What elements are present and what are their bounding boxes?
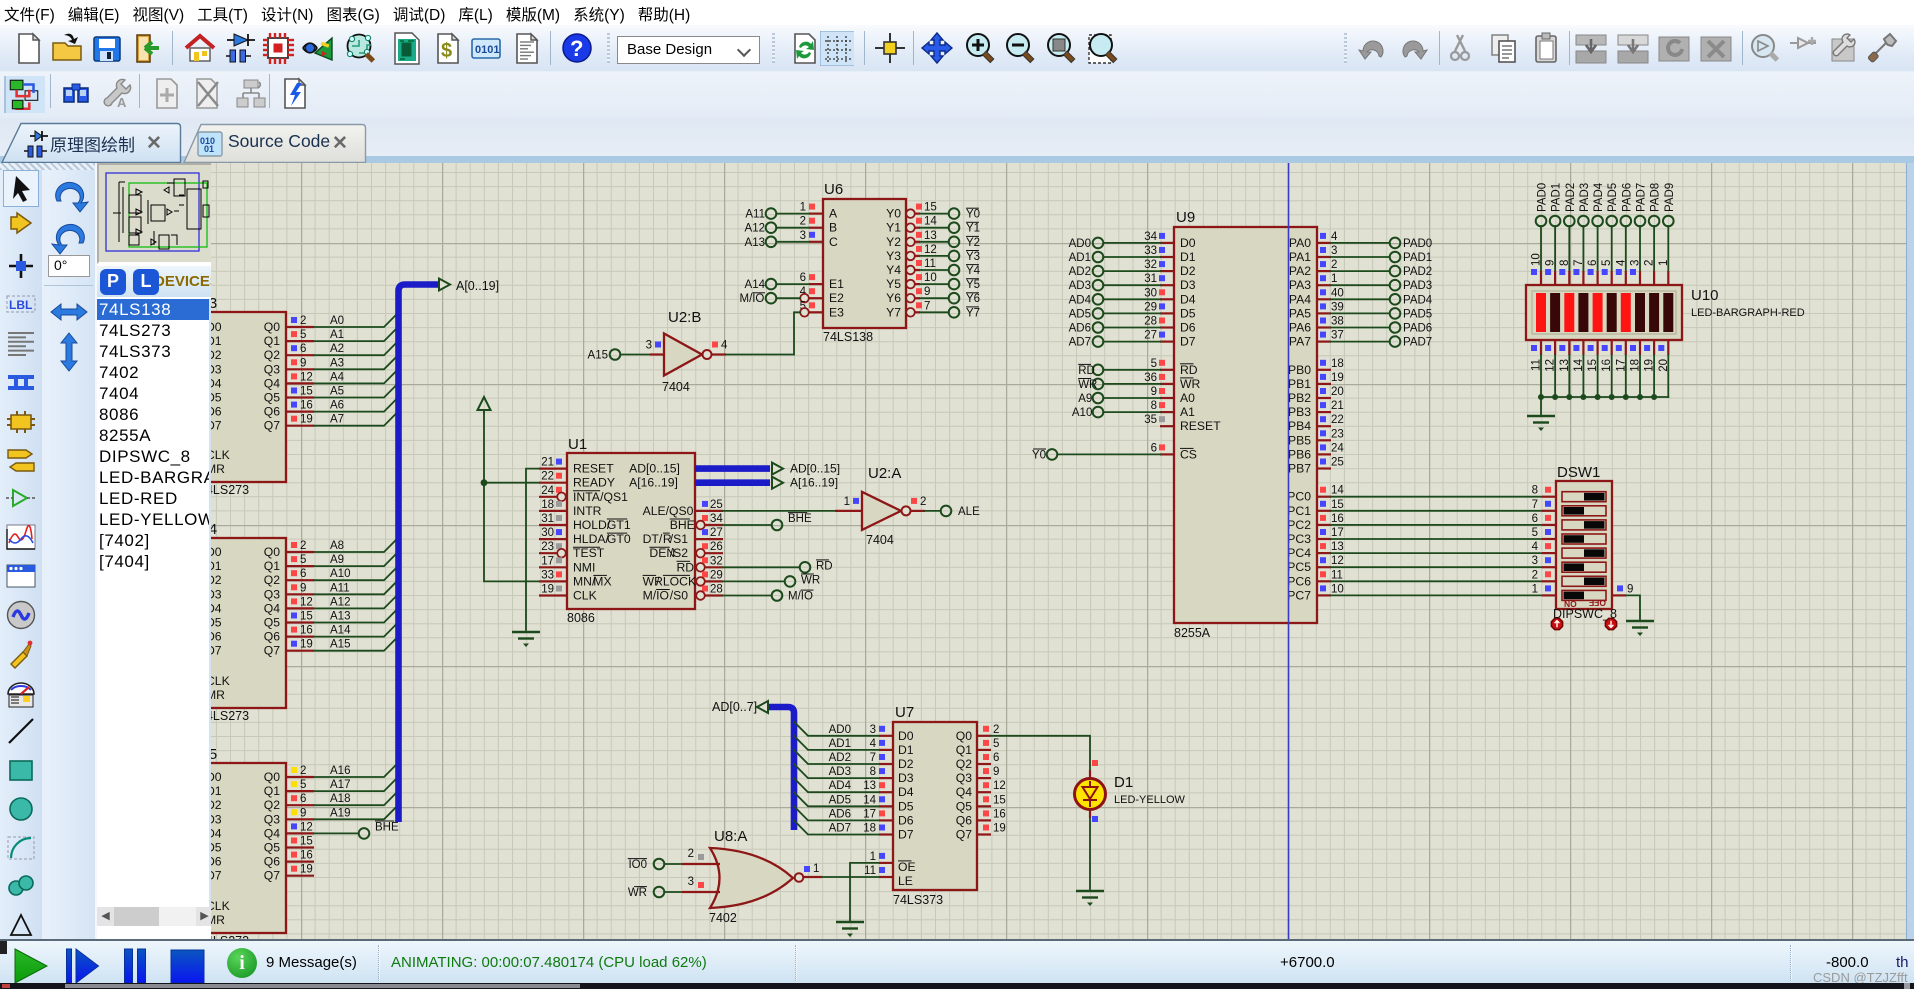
wire U2:B out to U6 E3 — [711, 353, 794, 355]
svg-text:D1: D1 — [1114, 774, 1133, 791]
svg-text:6: 6 — [800, 272, 806, 284]
svg-text:WR: WR — [643, 574, 664, 588]
U8:A pin 3 terminal WR — [628, 876, 720, 899]
svg-text:Y0: Y0 — [886, 207, 901, 221]
svg-text:19: 19 — [300, 864, 313, 876]
svg-text:Q3: Q3 — [956, 771, 972, 785]
svg-text:A12: A12 — [745, 223, 765, 235]
U10 top pin 7 terminal PAD3 — [1573, 183, 1591, 285]
svg-text:3: 3 — [800, 230, 806, 242]
svg-text:9: 9 — [993, 766, 999, 778]
svg-text:A: A — [829, 207, 838, 221]
svg-text:U2:B: U2:B — [668, 309, 701, 326]
U1 pin 29 — [695, 569, 723, 585]
svg-text:ALE: ALE — [958, 506, 980, 518]
svg-text:U9: U9 — [1176, 209, 1195, 226]
svg-text:15: 15 — [993, 794, 1006, 806]
svg-text:A17: A17 — [330, 779, 350, 791]
svg-text:D2: D2 — [211, 798, 222, 812]
U5 pin 2 wire A16 — [286, 763, 398, 777]
svg-text:B: B — [829, 221, 837, 235]
svg-text:31: 31 — [541, 513, 554, 525]
svg-text:9: 9 — [1151, 386, 1157, 398]
svg-text:74LS373: 74LS373 — [893, 893, 943, 907]
svg-text:1: 1 — [813, 863, 819, 875]
svg-text:MX: MX — [593, 574, 611, 588]
U3 pin 15 wire A5 — [286, 383, 398, 397]
svg-text:PAD1: PAD1 — [1403, 252, 1432, 264]
svg-text:D1: D1 — [211, 784, 222, 798]
svg-text:A15: A15 — [330, 639, 350, 651]
U3 pin 9 wire A3 — [286, 355, 398, 369]
svg-text:21: 21 — [1331, 400, 1344, 412]
svg-text:LBL: LBL — [9, 298, 32, 312]
svg-text:3: 3 — [1630, 260, 1642, 266]
svg-text:A[0..19]: A[0..19] — [456, 279, 499, 293]
U1 pin 31 (HOLD/) — [539, 513, 567, 525]
svg-text:PB3: PB3 — [1288, 405, 1311, 419]
svg-text:34: 34 — [1144, 231, 1157, 243]
svg-text:WR: WR — [1078, 379, 1097, 391]
IC U7 74LS373 — [893, 704, 977, 907]
svg-text:7: 7 — [1573, 260, 1585, 266]
svg-text:PA6: PA6 — [1289, 321, 1311, 335]
svg-text:9: 9 — [924, 286, 930, 298]
svg-text:RD: RD — [1078, 365, 1095, 377]
svg-text:OE: OE — [898, 860, 916, 874]
svg-text:M/: M/ — [788, 591, 802, 603]
svg-text:RD: RD — [677, 560, 695, 574]
svg-text:MR: MR — [211, 462, 225, 476]
svg-text:74LS273: 74LS273 — [211, 709, 249, 723]
svg-text:14: 14 — [863, 794, 876, 806]
svg-text:25: 25 — [710, 499, 723, 511]
IC U6 74LS138 — [823, 181, 906, 344]
U1 pin 19 (CLK) — [539, 584, 567, 596]
svg-text:15: 15 — [1331, 499, 1344, 511]
svg-text:D5: D5 — [1180, 306, 1196, 320]
U6 pin 10 wire Y5 — [906, 272, 980, 291]
svg-text:A12: A12 — [330, 596, 350, 608]
svg-text:OFF: OFF — [1589, 598, 1606, 608]
U7 pin 5 Q1 — [977, 738, 999, 750]
U9 pin 27 wire AD7 — [1069, 330, 1174, 349]
svg-text:1: 1 — [800, 202, 806, 214]
U6 pin 7 wire Y7 — [906, 300, 980, 319]
svg-text:D4: D4 — [211, 826, 222, 840]
svg-text:A13: A13 — [330, 611, 350, 623]
svg-text:RESET: RESET — [573, 462, 614, 476]
svg-text:Q6: Q6 — [264, 630, 280, 644]
svg-text:A8: A8 — [330, 540, 344, 552]
svg-text:WR: WR — [1180, 377, 1201, 391]
power terminal arrow — [478, 397, 491, 414]
svg-text:Y7: Y7 — [886, 305, 901, 319]
U8:A pin 1 output wire to U7 LE/OE and ground — [803, 863, 879, 921]
svg-text:34: 34 — [710, 513, 723, 525]
U9 pin 37 wire PAD7 — [1317, 330, 1432, 349]
svg-text:Q1: Q1 — [264, 784, 280, 798]
svg-text:1: 1 — [1532, 583, 1538, 595]
svg-text:U3: U3 — [211, 295, 217, 312]
svg-text:/QS1: /QS1 — [600, 490, 628, 504]
wire ALE from U1 to U2:A — [723, 510, 862, 512]
svg-text:Q5: Q5 — [264, 616, 280, 630]
svg-text:28: 28 — [1144, 316, 1157, 328]
U9 pin 13 wire PC4 to DSW1 pin 4 — [1317, 541, 1556, 553]
svg-text:D3: D3 — [898, 771, 914, 785]
U4 pin 2 wire A8 — [286, 538, 398, 552]
NOR gate U8:A 7402 — [709, 828, 803, 925]
U9 pin 32 wire AD2 — [1069, 259, 1174, 278]
U4 pin 15 wire A13 — [286, 608, 398, 622]
svg-text:32: 32 — [710, 555, 723, 567]
U3 pin 19 wire A7 — [286, 412, 398, 426]
U7 pin 8 wire AD3 — [794, 764, 893, 778]
U9 pin 5 wire — [1078, 358, 1174, 377]
svg-text:LED-BARGRAPH-RED: LED-BARGRAPH-RED — [1691, 307, 1805, 319]
U5 pin 6 wire A18 — [286, 791, 398, 805]
U10 bottom pin 18 wire — [1630, 340, 1644, 400]
U1 pin 28 — [695, 584, 723, 600]
svg-text:19: 19 — [541, 584, 554, 596]
U1 pin 26 — [695, 541, 723, 557]
U10 top pin 5 terminal PAD5 — [1601, 183, 1619, 285]
svg-text:D0: D0 — [211, 320, 222, 334]
svg-text:1: 1 — [844, 496, 850, 508]
sheet border line — [1288, 163, 1290, 939]
svg-text:AD4: AD4 — [829, 780, 852, 792]
U10 top pin 9 terminal PAD1 — [1545, 183, 1563, 285]
svg-text:6: 6 — [300, 343, 306, 355]
svg-text:33: 33 — [541, 569, 554, 581]
svg-text:Y5: Y5 — [966, 279, 980, 291]
U4 pin 12 wire A12 — [286, 594, 398, 608]
svg-text:D6: D6 — [211, 855, 222, 869]
svg-text:PAD7: PAD7 — [1636, 183, 1648, 212]
svg-text:74LS138: 74LS138 — [823, 330, 873, 344]
svg-text:A3: A3 — [330, 357, 344, 369]
svg-text:Q6: Q6 — [956, 813, 972, 827]
U7 pin 14 wire AD5 — [794, 792, 893, 806]
U3 pin 12 wire A4 — [286, 369, 398, 383]
U3 pin 16 wire A6 — [286, 398, 398, 412]
U9 pin 33 wire AD1 — [1069, 245, 1174, 264]
svg-text:PC4: PC4 — [1287, 546, 1311, 560]
svg-text:13: 13 — [863, 780, 876, 792]
svg-text:A11: A11 — [745, 209, 765, 221]
svg-text:14: 14 — [1331, 485, 1344, 497]
U9 pin 19 PB1 stub — [1317, 372, 1344, 384]
svg-text:D4: D4 — [211, 601, 222, 615]
svg-text:PA5: PA5 — [1289, 306, 1311, 320]
svg-text:12: 12 — [300, 371, 313, 383]
U8:A pin 2 terminal IO0 — [628, 848, 720, 871]
svg-text:LED-YELLOW: LED-YELLOW — [1114, 794, 1186, 806]
ground below D1 — [1076, 891, 1104, 906]
svg-text:Q2: Q2 — [264, 573, 280, 587]
svg-text:PAD9: PAD9 — [1664, 183, 1676, 212]
U9 pin 11 wire PC6 to DSW1 pin 2 — [1317, 569, 1556, 581]
U6 pin 13 wire Y2 — [906, 230, 980, 249]
svg-text:2: 2 — [688, 848, 694, 860]
svg-text:10: 10 — [1331, 583, 1344, 595]
svg-text:22: 22 — [1331, 414, 1344, 426]
U7 pin 12 Q4 — [977, 780, 1006, 792]
U6 pin 12 wire Y3 — [906, 244, 980, 263]
U10 top pin 3 terminal PAD7 — [1630, 183, 1648, 285]
svg-text:15: 15 — [924, 202, 937, 214]
IC U4 74LS273 — [180, 521, 286, 723]
IC U5 74LS273 — [180, 746, 286, 948]
svg-text:U1: U1 — [568, 436, 587, 453]
wire U1 READY — [481, 479, 539, 486]
svg-text:D5: D5 — [211, 841, 222, 855]
svg-text:A5: A5 — [330, 386, 344, 398]
U5 pin 15 stub — [286, 836, 314, 848]
wire D1 to ground — [1089, 818, 1091, 889]
svg-text:Q0: Q0 — [264, 770, 280, 784]
svg-text:TEST: TEST — [573, 546, 605, 560]
svg-text:A11: A11 — [330, 582, 350, 594]
svg-text:Y2: Y2 — [966, 237, 980, 249]
svg-text:D4: D4 — [898, 785, 914, 799]
svg-text:MR: MR — [211, 688, 225, 702]
svg-text:PC2: PC2 — [1287, 518, 1311, 532]
svg-text:GT1: GT1 — [607, 518, 631, 532]
svg-text:DT/: DT/ — [643, 532, 663, 546]
svg-text:1: 1 — [870, 851, 876, 863]
svg-text:6: 6 — [300, 568, 306, 580]
svg-text:MR: MR — [211, 913, 225, 927]
svg-text:2: 2 — [800, 216, 806, 228]
svg-text:7: 7 — [924, 300, 930, 312]
svg-text:1: 1 — [1658, 260, 1670, 266]
svg-text:U8:A: U8:A — [714, 828, 747, 845]
svg-text:9: 9 — [300, 582, 306, 594]
svg-text:D4: D4 — [1180, 292, 1196, 306]
svg-text:Q6: Q6 — [264, 855, 280, 869]
ground below U1 — [512, 632, 540, 647]
U7 pin 3 wire AD0 — [794, 722, 893, 736]
U9 pin 28 wire AD6 — [1069, 316, 1174, 335]
svg-text:Y7: Y7 — [966, 307, 980, 319]
svg-text:PB6: PB6 — [1288, 447, 1311, 461]
U6 pin 15 wire Y0 — [906, 202, 980, 221]
svg-text:D5: D5 — [898, 799, 914, 813]
svg-text:26: 26 — [710, 541, 723, 553]
svg-text:2: 2 — [920, 496, 926, 508]
U7 pin 6 Q2 — [977, 752, 999, 764]
svg-text:AD6: AD6 — [1069, 323, 1091, 335]
svg-text:D3: D3 — [211, 587, 222, 601]
ground below U8:A — [836, 922, 864, 937]
svg-text:INTA: INTA — [573, 490, 601, 504]
U7 pin 18 wire AD7 — [794, 820, 893, 834]
svg-text:A15: A15 — [588, 350, 608, 362]
svg-text:15: 15 — [300, 611, 313, 623]
U9 pin 34 wire AD0 — [1069, 231, 1174, 250]
svg-text:17: 17 — [863, 808, 876, 820]
svg-text:Y5: Y5 — [886, 277, 901, 291]
svg-text:AD2: AD2 — [829, 752, 851, 764]
svg-text:4: 4 — [1331, 231, 1338, 243]
svg-text:PAD5: PAD5 — [1403, 308, 1432, 320]
svg-text:PAD1: PAD1 — [1551, 183, 1563, 212]
wire M/IO terminal — [723, 590, 814, 602]
terminal A15 — [588, 349, 664, 361]
svg-text:PA2: PA2 — [1289, 264, 1311, 278]
svg-text:Y1: Y1 — [966, 223, 980, 235]
svg-text:12: 12 — [1331, 555, 1344, 567]
svg-text:NMI: NMI — [573, 560, 595, 574]
U10 top pin 10 terminal PAD0 — [1531, 183, 1549, 285]
svg-text:27: 27 — [1144, 330, 1157, 342]
svg-text:PC3: PC3 — [1287, 532, 1311, 546]
svg-text:D0: D0 — [898, 729, 914, 743]
svg-text:PAD8: PAD8 — [1650, 183, 1662, 212]
svg-text:6: 6 — [300, 793, 306, 805]
U5 pin 16 stub — [286, 850, 314, 862]
svg-text:A0: A0 — [330, 315, 344, 327]
svg-text:PB7: PB7 — [1288, 462, 1311, 476]
svg-text:A14: A14 — [330, 625, 351, 637]
U9 pin 2 wire PAD2 — [1317, 259, 1432, 278]
svg-text:/S0: /S0 — [670, 589, 689, 603]
svg-text:5: 5 — [300, 329, 306, 341]
svg-text:LOCK: LOCK — [663, 574, 696, 588]
svg-text:BHE: BHE — [670, 518, 695, 532]
U1 pin 27 — [695, 527, 723, 539]
IC U1 8086 — [567, 436, 696, 625]
svg-text:IO: IO — [752, 293, 764, 305]
U7 pin 13 wire AD4 — [794, 778, 893, 792]
svg-text:PA3: PA3 — [1289, 278, 1311, 292]
svg-text:12: 12 — [300, 821, 313, 833]
svg-text:25: 25 — [1331, 457, 1344, 469]
U4 pin 16 wire A14 — [286, 623, 398, 637]
svg-text:16: 16 — [300, 850, 313, 862]
svg-text:AD1: AD1 — [829, 738, 851, 750]
svg-text:21: 21 — [541, 457, 554, 469]
svg-text:PC0: PC0 — [1287, 490, 1311, 504]
svg-text:PC5: PC5 — [1287, 560, 1311, 574]
svg-text:8: 8 — [870, 766, 876, 778]
svg-text:D2: D2 — [211, 348, 222, 362]
svg-text:D0: D0 — [211, 545, 222, 559]
svg-text:M/: M/ — [643, 589, 657, 603]
U5 pin 19 stub — [286, 864, 314, 876]
svg-text:CLK: CLK — [211, 448, 230, 462]
svg-text:4: 4 — [1615, 259, 1627, 266]
svg-text:PAD6: PAD6 — [1403, 323, 1432, 335]
svg-text:4: 4 — [870, 738, 877, 750]
svg-text:D3: D3 — [211, 812, 222, 826]
U9 pin 35 RESET stub — [1144, 414, 1174, 426]
svg-text:Q2: Q2 — [264, 798, 280, 812]
svg-text:8255A: 8255A — [1174, 626, 1211, 640]
U10 bottom pin 15 wire — [1587, 340, 1601, 400]
svg-text:AD7: AD7 — [1069, 337, 1091, 349]
U1 pin 32 — [695, 555, 723, 571]
svg-text:19: 19 — [1331, 372, 1344, 384]
svg-text:A7: A7 — [330, 414, 344, 426]
svg-text:WR: WR — [801, 574, 820, 586]
svg-text:27: 27 — [710, 527, 723, 539]
svg-text:4: 4 — [721, 340, 728, 352]
DSW1 actuator up button — [1551, 618, 1562, 629]
svg-text:Y0: Y0 — [1032, 449, 1046, 461]
U9 pin 21 PB3 stub — [1317, 400, 1344, 412]
svg-text:22: 22 — [541, 471, 554, 483]
U1 pin 24 (INTA) — [539, 485, 567, 501]
U10 top pin 6 terminal PAD4 — [1587, 182, 1605, 285]
svg-text:Y6: Y6 — [966, 293, 980, 305]
svg-text:Y3: Y3 — [886, 249, 901, 263]
svg-text:/S1: /S1 — [670, 532, 689, 546]
svg-text:19: 19 — [300, 639, 313, 651]
svg-text:PA0: PA0 — [1289, 236, 1311, 250]
svg-text:HOLD/: HOLD/ — [573, 518, 611, 532]
svg-text:37: 37 — [1331, 330, 1344, 342]
svg-text:PC6: PC6 — [1287, 574, 1311, 588]
svg-text:D3: D3 — [1180, 278, 1196, 292]
U9 pin 39 wire PAD5 — [1317, 301, 1432, 320]
svg-text:D4: D4 — [211, 376, 222, 390]
svg-text:AD[0..7]: AD[0..7] — [712, 700, 757, 714]
svg-text:Y4: Y4 — [966, 265, 981, 277]
svg-text:Q7: Q7 — [264, 869, 280, 883]
svg-text:9: 9 — [1627, 583, 1633, 595]
svg-text:AD2: AD2 — [1069, 266, 1091, 278]
wire RD terminal — [723, 560, 833, 573]
svg-text:11: 11 — [864, 865, 876, 877]
U9 pin 23 PB5 stub — [1317, 428, 1344, 440]
U9 pin 16 wire PC2 to DSW1 pin 6 — [1317, 513, 1556, 525]
svg-text:A[16..19]: A[16..19] — [629, 476, 678, 490]
svg-text:Q2: Q2 — [264, 348, 280, 362]
svg-text:3: 3 — [870, 724, 876, 736]
svg-text:6: 6 — [1532, 513, 1538, 525]
svg-text:Q6: Q6 — [264, 405, 280, 419]
LED D1 LED-YELLOW — [1075, 760, 1186, 822]
svg-text:A19: A19 — [330, 807, 350, 819]
svg-text:D7: D7 — [898, 828, 914, 842]
svg-text:7404: 7404 — [662, 380, 690, 394]
svg-text:A10: A10 — [330, 568, 350, 580]
svg-text:AD0: AD0 — [1069, 238, 1091, 250]
svg-text:DSW1: DSW1 — [1557, 464, 1600, 481]
svg-text:PAD2: PAD2 — [1403, 266, 1432, 278]
U6 pin 14 wire Y1 — [906, 216, 980, 235]
U10 bottom pin 12 wire — [1545, 340, 1559, 400]
svg-text:10: 10 — [1531, 253, 1543, 266]
svg-text:20: 20 — [1331, 386, 1344, 398]
U1 pin 30 (HLDA/) — [539, 527, 567, 539]
svg-text:A10: A10 — [1072, 407, 1092, 419]
svg-text:PAD3: PAD3 — [1579, 183, 1591, 212]
svg-text:19: 19 — [300, 414, 313, 426]
svg-text:IO: IO — [656, 589, 669, 603]
U9 pin 40 wire PAD4 — [1317, 287, 1433, 306]
svg-text:PB2: PB2 — [1288, 391, 1311, 405]
svg-text:Q2: Q2 — [956, 757, 972, 771]
svg-text:A0: A0 — [1180, 391, 1195, 405]
U4 pin 9 wire A11 — [286, 580, 398, 594]
U6 pin 4 wire M/IO — [740, 286, 824, 305]
svg-text:D3: D3 — [211, 362, 222, 376]
svg-text:PAD4: PAD4 — [1593, 182, 1605, 212]
